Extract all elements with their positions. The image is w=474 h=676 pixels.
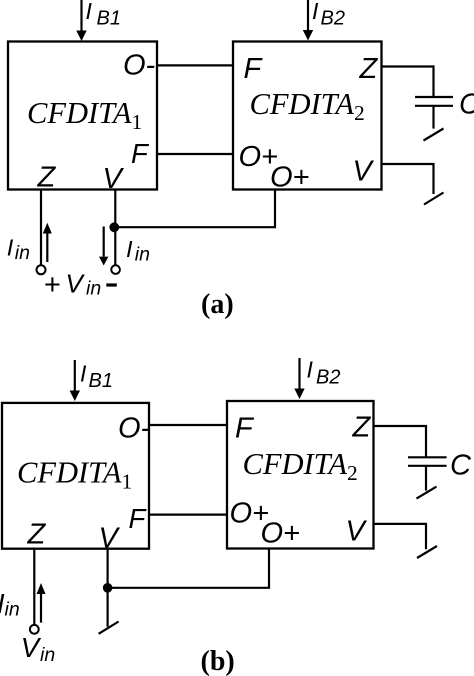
svg-text:in: in [40, 644, 55, 666]
svg-text:C: C [459, 89, 474, 121]
svg-text:O-: O- [118, 413, 150, 445]
block CFDITA1 (a) [8, 42, 157, 190]
wire V to ground node (b) [106, 549, 108, 627]
svg-text:O-: O- [123, 50, 155, 82]
feedback wire O+ to V node (a) [115, 190, 275, 228]
bias current IB1 arrow (b) [70, 360, 80, 401]
svg-text:Z: Z [37, 162, 57, 194]
block CFDITA1 (b) [2, 403, 149, 549]
ground below V (b) [417, 546, 437, 558]
current arrow Iin down (a) [99, 227, 108, 266]
svg-text:I: I [312, 0, 319, 24]
svg-text:in: in [86, 278, 101, 300]
label IB2 (a) [312, 0, 345, 30]
svg-text:(b): (b) [201, 646, 235, 676]
svg-text:CFDITA1: CFDITA1 [27, 96, 142, 134]
svg-text:CFDITA2: CFDITA2 [250, 87, 365, 125]
ground below V junction (b) [99, 622, 119, 634]
capacitor C (b) [408, 457, 447, 490]
bias current IB1 arrow (a) [76, 0, 86, 41]
svg-text:in: in [15, 242, 30, 264]
wire V to ground (b) [374, 524, 427, 549]
svg-text:O+: O+ [270, 162, 310, 194]
svg-text:(a): (a) [201, 289, 234, 320]
label IB2 (b) [307, 357, 341, 389]
wire Z input (b) [33, 549, 35, 625]
svg-text:I: I [307, 357, 314, 383]
svg-text:CFDITA1: CFDITA1 [17, 456, 132, 494]
label Iin right (a) [126, 236, 150, 266]
svg-text:+: + [44, 269, 61, 301]
svg-text:O+: O+ [261, 517, 301, 549]
svg-text:V: V [66, 269, 86, 299]
wire Z to capacitor (a) [382, 67, 434, 98]
svg-text:I: I [80, 361, 87, 387]
svg-text:I: I [126, 236, 133, 262]
wire Z input (a) [40, 190, 42, 265]
current arrow Iin up (b) [37, 583, 46, 623]
current arrow Iin up (a) [43, 223, 52, 262]
svg-text:B2: B2 [316, 367, 340, 389]
terminal circle Z input (b) [30, 625, 39, 634]
wire F to O+ (b) [149, 513, 227, 515]
wire Z to capacitor (b) [374, 426, 427, 457]
terminal circle Z input (a) [37, 265, 46, 274]
label Vin (b) [21, 632, 55, 666]
svg-text:B1: B1 [89, 370, 113, 392]
svg-text:V: V [103, 163, 125, 195]
wire V input (a) [114, 190, 116, 265]
svg-text:V: V [99, 522, 121, 554]
svg-text:Z: Z [27, 519, 47, 551]
svg-text:B2: B2 [321, 8, 345, 30]
svg-text:V: V [353, 155, 375, 187]
svg-text:I: I [86, 0, 93, 24]
svg-text:F: F [244, 53, 264, 85]
wire O- to F (b) [149, 424, 227, 426]
svg-text:V: V [21, 632, 42, 663]
junction dot (a) [109, 222, 119, 232]
ground below V (a) [424, 193, 444, 205]
bias current IB2 arrow (a) [303, 0, 313, 41]
svg-text:Z: Z [359, 53, 379, 85]
wire O- to F (a) [157, 64, 233, 66]
feedback wire O+ to V node (b) [108, 549, 269, 588]
ground below capacitor (b) [417, 487, 437, 499]
svg-text:V: V [346, 516, 368, 548]
junction dot (b) [103, 583, 113, 593]
label IB1 (a) [86, 0, 121, 30]
svg-text:F: F [235, 413, 255, 445]
svg-text:in: in [5, 599, 20, 621]
capacitor C (a) [415, 97, 453, 129]
label IB1 (b) [80, 361, 113, 393]
svg-text:B1: B1 [97, 8, 121, 30]
wire F to O+ (a) [157, 153, 233, 155]
label Iin left (a) [7, 234, 30, 264]
svg-text:F: F [129, 503, 148, 534]
label Vin (a) [66, 269, 102, 300]
svg-text:F: F [131, 138, 150, 169]
label minus (a) [106, 283, 117, 286]
svg-text:CFDITA2: CFDITA2 [243, 447, 358, 485]
label Iin (b) [0, 588, 20, 621]
svg-text:in: in [135, 244, 150, 266]
block CFDITA2 (a) [233, 42, 382, 190]
ground below capacitor (a) [424, 129, 444, 141]
svg-text:I: I [7, 234, 14, 260]
svg-text:C: C [450, 450, 472, 482]
svg-text:Z: Z [352, 412, 372, 444]
bias current IB2 arrow (b) [294, 358, 304, 399]
block CFDITA2 (b) [227, 401, 374, 549]
terminal circle V input (a) [111, 265, 120, 274]
wire V to ground (a) [382, 164, 434, 194]
